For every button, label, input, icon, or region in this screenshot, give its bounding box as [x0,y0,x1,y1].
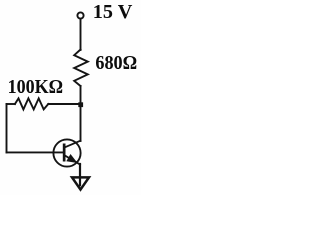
ground [72,177,89,189]
svg-text:680Ω: 680Ω [95,52,137,74]
resistor R2 100Kohm [15,98,48,109]
wire terminal to R1 [80,19,82,50]
wire emitter to ground [79,164,81,185]
svg-text:15 V: 15 V [93,1,133,23]
wire node A to collector [80,104,82,141]
wire node A to R2 [48,103,80,105]
node A junction dot [78,102,83,107]
wire R2 left lead [7,103,15,105]
wire left vertical of feedback loop [6,104,8,152]
terminal 15V node [77,12,83,18]
wire R1 to node A [80,86,82,104]
transistor Q1 [53,139,80,166]
svg-text:100KΩ: 100KΩ [8,76,64,98]
wire base lead [7,151,63,153]
resistor R1 680ohm [74,50,88,87]
